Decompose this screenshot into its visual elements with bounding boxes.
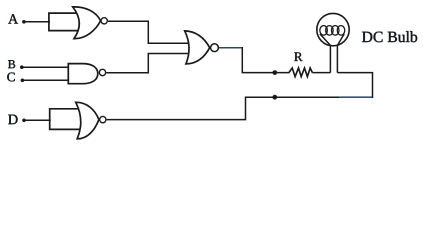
gate U4 NOR (middle) body — [185, 31, 210, 64]
label D — [8, 115, 17, 125]
wire B input — [22, 66, 69, 68]
DC bulb right lead — [337, 34, 344, 73]
gate U1 NOR (input A) input box — [49, 13, 79, 31]
gate U4 output bubble — [211, 44, 219, 52]
DC bulb filament coil loop 3 — [331, 26, 339, 36]
gate U1 NOR (input A) body — [73, 7, 101, 39]
wire vertical at x=242 — [242, 47, 289, 73]
gate U2 output bubble — [99, 69, 105, 75]
junction dot lower rail — [272, 95, 277, 100]
wire gate-D output to bottom rail — [107, 97, 340, 119]
DC bulb envelope circle — [317, 13, 349, 45]
wire NOR output down to node row — [219, 47, 242, 49]
node dot input B — [20, 65, 24, 69]
node dot input C — [21, 79, 25, 83]
wire D input — [24, 119, 51, 121]
gate U3 NOR (input D) input box — [50, 109, 81, 130]
wire NAND output to NOR lower input — [106, 54, 189, 73]
resistor R — [289, 68, 313, 77]
wire C input — [22, 79, 69, 81]
wire right vertical and top segment to bulb right lead — [337, 73, 372, 98]
label DC Bulb — [362, 31, 417, 42]
gate U3 output bubble — [100, 116, 106, 122]
junction dot upper rail — [272, 70, 277, 75]
gate U3 NOR (input D) body — [76, 102, 99, 139]
wire gate-A output to NOR upper input — [108, 21, 190, 43]
wire A input — [24, 21, 50, 23]
label C — [7, 73, 14, 82]
label A — [8, 14, 18, 23]
label B — [8, 60, 15, 68]
DC bulb filament coil loop 2 — [326, 26, 334, 36]
DC bulb filament coil loop 4 — [337, 26, 345, 36]
gate U1 output bubble — [101, 18, 107, 24]
wire resistor to bulb left lead — [312, 72, 330, 74]
gate U2 NAND (inputs B,C) body — [68, 64, 98, 84]
wire bottom rail right (blue tinted) — [339, 96, 373, 98]
label R — [294, 52, 302, 61]
DC bulb left lead — [320, 34, 331, 73]
node dot input A — [22, 20, 26, 24]
DC bulb filament coil loop 1 — [320, 26, 328, 36]
node dot input D — [22, 119, 26, 123]
